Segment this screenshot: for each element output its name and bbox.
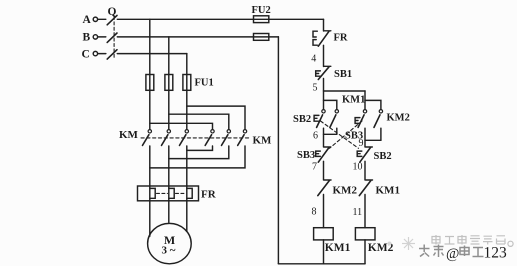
contactor KM1 interlock NC contact [359,180,372,196]
svg-text:5: 5 [313,83,318,94]
pushbutton SB2 NC contact [357,147,372,162]
wire coil KM2 bottom [364,240,366,264]
wire drop phase C [186,54,188,130]
wire KM2 contact 3 bottom [150,146,245,168]
switch Q pole B blade [107,33,117,42]
button mechanical link SB3 dashed [330,121,363,148]
button mechanical link SB2 dashed [321,121,359,148]
wire motor lead W [186,201,188,232]
thermal relay FR NC contact [313,31,331,46]
svg-text:9: 9 [359,138,364,149]
wire phase B top [117,36,278,38]
pushbutton SB3 NC contact [316,147,331,162]
svg-text:C: C [82,48,90,60]
switch Q pole A blade [107,15,117,24]
contactor KM2 aux NO contact [374,110,383,128]
svg-text:A: A [83,14,92,26]
contactor KM reverse main contact 2 [222,130,231,146]
contactor KM forward main contact 3 [180,130,189,146]
svg-text:KM2: KM2 [387,113,410,124]
coil KM2 [355,228,375,240]
contactor KM reverse main contact 3 [238,130,247,146]
svg-text:123: 123 [484,245,508,262]
svg-text:SB2: SB2 [293,114,311,125]
svg-text:KM2: KM2 [333,184,358,196]
contactor KM reverse main contact 1 [205,130,214,146]
wire control bottom rail [278,263,365,265]
svg-text:KM: KM [119,129,139,141]
fuse FU1 pole 2 [165,75,173,91]
wire node 10 [364,161,366,180]
svg-text:KM1: KM1 [342,95,365,106]
contactor KM forward main contact 1 [143,130,152,146]
contactor KM1 aux NO contact [330,110,339,128]
pushbutton SB2 NO contact [314,110,325,128]
wire node 4 [323,45,325,66]
wire KM1 aux stub [324,100,337,109]
wire node 8 [323,195,325,228]
wire leg V below KM [168,146,170,186]
svg-text:6: 6 [313,131,318,142]
wire drop phase A [149,19,151,129]
contactor KM2 interlock NC contact [318,180,331,196]
watermark text light 电工电气学习 [432,235,513,246]
watermark text 头条@电工123 [419,245,444,258]
svg-text:4: 4 [311,54,316,65]
wire node5 branch horizontal [324,90,366,92]
svg-text:8: 8 [312,207,317,218]
wire KM2 aux lower [380,128,382,140]
wire phase A top [117,18,323,20]
svg-text:SB1: SB1 [334,69,352,80]
wire phase C top [117,53,187,55]
wire control hot drop [323,19,325,31]
svg-text:KM: KM [253,135,273,147]
wire drop phase B [168,37,170,129]
svg-text:@: @ [446,246,459,262]
FR heater element 1 [150,186,155,201]
svg-text:FR: FR [334,33,348,44]
FR heater linkage dashed [157,192,168,194]
terminal C [93,51,106,55]
watermark logo snowflake [388,237,416,250]
fuse FU2 pole 1 [254,16,269,23]
fuse FU1 pole 3 [183,75,191,91]
svg-text:KM1: KM1 [376,184,400,196]
wire KM2 aux stub [365,100,381,109]
svg-text:KM1: KM1 [325,242,351,254]
switch Q pole C blade [107,50,117,59]
svg-text:3 ~: 3 ~ [162,245,176,257]
svg-text:Q: Q [108,6,117,18]
svg-text:7: 7 [312,161,317,172]
wire crossover top h3 (A to KM2 left contact) [150,123,213,129]
wire KM2 contact 2 bottom [169,146,229,159]
svg-text:10: 10 [353,161,363,172]
switch Q linkage dashed [113,17,115,58]
svg-text:11: 11 [353,207,363,218]
wire SB3 lower [364,128,366,147]
pushbutton SB3 NO contact [355,110,367,128]
contactor KM forward main contact 2 [162,130,171,146]
wire SB2 lower [323,128,325,147]
wire leg W below KM [186,146,188,186]
svg-text:SB2: SB2 [374,151,392,162]
svg-text:SB3: SB3 [297,150,315,161]
pushbutton SB1 NC contact [316,66,331,79]
svg-text:FU2: FU2 [252,5,271,16]
FR heater element 3 [187,186,192,201]
wire node 5 [323,79,325,110]
terminal A [93,17,106,21]
wire KM2 contact 1 bottom [187,146,213,150]
fuse FU1 pole 1 [146,75,154,91]
wire motor lead V [168,201,170,223]
thermal relay FR heater box [138,186,199,201]
wire crossover top h2 (B to KM2 middle contact) [169,114,229,129]
wire node 11 [364,195,366,228]
wire right branch drop [364,91,366,110]
motor M circle [148,223,192,263]
FR heater element 2 [169,186,174,201]
KM contacts linkage dashed [141,137,251,139]
wire motor lead U [149,201,151,236]
fuse FU2 pole 2 [254,34,269,41]
svg-text:FR: FR [201,189,217,201]
terminal B [93,35,106,39]
wire crossover top h1 (C to KM2 right contact) [187,106,245,129]
wire leg U below KM [149,146,151,186]
wire node 7 [323,161,325,180]
wire KM1 aux lower [336,128,338,134]
svg-text:FU1: FU1 [195,78,214,89]
wire control neutral return [277,37,279,264]
svg-text:B: B [83,32,91,44]
wire node 9 join [365,139,381,141]
coil KM1 [314,228,334,240]
wire node 6 join [324,133,337,135]
wire coil KM1 bottom [323,240,325,264]
